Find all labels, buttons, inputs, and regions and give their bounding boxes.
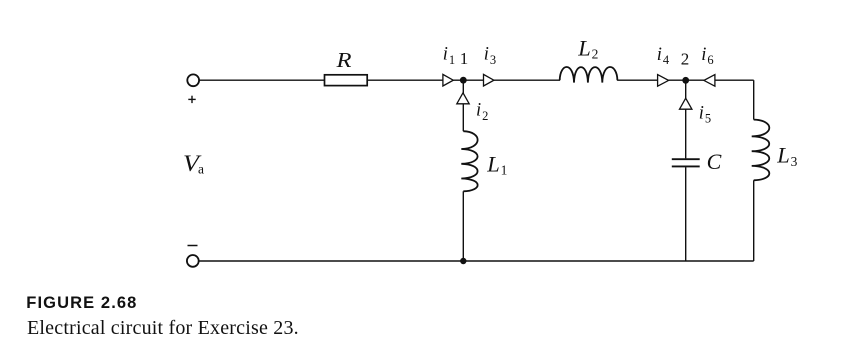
svg-text:1: 1 — [460, 49, 469, 68]
inductor L1 (vertical coil) — [461, 131, 477, 191]
wire top left segment (terminal + to L2) — [200, 79, 561, 81]
svg-text:i: i — [701, 45, 706, 65]
minus sign of source — [188, 245, 198, 247]
current arrow i3 (open triangle right, on top wire) — [484, 74, 494, 86]
capacitor C (two plates) — [672, 159, 700, 166]
svg-text:R: R — [335, 48, 351, 72]
node 1 junction dot — [460, 77, 467, 84]
wire right branch vertical lower (L3 bottom to bottom wire) — [753, 180, 755, 261]
current arrow i5 (open triangle up, on capacitor branch) — [680, 98, 692, 109]
svg-text:C: C — [707, 149, 722, 174]
inductor L3 (vertical coil, right branch) — [752, 120, 770, 181]
inductor L2 (horizontal coil on top wire) — [560, 67, 618, 83]
svg-text:2: 2 — [592, 47, 599, 62]
svg-text:i: i — [657, 45, 662, 65]
svg-text:6: 6 — [707, 53, 713, 67]
wire bottom return (terminal - to L3 branch) — [199, 260, 754, 262]
svg-text:L: L — [776, 143, 790, 168]
wire top right segment (L2 to right corner) — [617, 79, 754, 81]
node 2 junction dot — [682, 77, 689, 84]
svg-text:L: L — [486, 152, 500, 177]
current arrow i4 (open triangle right, on top wire) — [658, 75, 669, 87]
wire node2 to capacitor top plate — [685, 80, 687, 158]
svg-text:i: i — [484, 45, 489, 65]
svg-text:4: 4 — [663, 53, 670, 67]
plus sign of source — [188, 96, 195, 103]
svg-text:2: 2 — [482, 109, 488, 123]
caption text — [27, 317, 299, 340]
wire node1 to L1 top — [462, 80, 464, 131]
terminal + (open circle) — [187, 74, 199, 86]
svg-text:2: 2 — [681, 49, 690, 68]
svg-text:1: 1 — [449, 53, 455, 67]
resistor R (box) — [325, 75, 368, 86]
current arrow i2 (open triangle up, on L1 branch) — [457, 93, 469, 104]
svg-text:i: i — [699, 103, 704, 123]
svg-text:a: a — [198, 162, 204, 177]
terminal - (open circle) — [187, 255, 199, 267]
current arrow i6 (open triangle left, on top wire) — [704, 75, 715, 87]
svg-text:i: i — [443, 45, 448, 65]
caption figure number — [26, 294, 137, 313]
svg-text:3: 3 — [791, 154, 798, 169]
wire right branch vertical upper (corner to L3 top) — [753, 80, 755, 119]
wire L1 bottom to bottom junction — [462, 191, 464, 261]
bottom junction dot (L1 to bottom wire) — [460, 258, 466, 264]
svg-text:L: L — [577, 36, 591, 61]
svg-text:i: i — [476, 101, 481, 121]
current arrow i1 (open triangle right, on top wire) — [443, 74, 453, 86]
svg-text:1: 1 — [501, 163, 508, 178]
svg-text:3: 3 — [490, 53, 496, 67]
wire capacitor bottom plate to bottom wire — [685, 167, 687, 261]
svg-text:5: 5 — [705, 112, 711, 126]
